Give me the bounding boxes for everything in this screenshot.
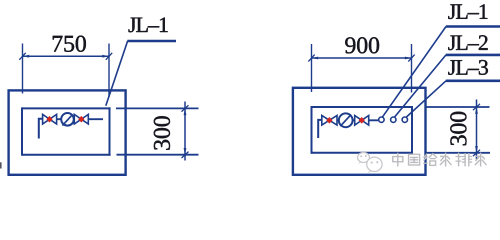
- dim 900 extension line right: [411, 44, 413, 93]
- edge smudge artifact: [0, 162, 2, 168]
- dim 300 right extension bottom: [426, 152, 491, 154]
- dim 900 dimension line: [312, 57, 412, 59]
- JL-3 underline (right figure): [446, 80, 500, 83]
- red diamond on right valve V1: [326, 117, 332, 124]
- dim 300 left extension bottom: [117, 154, 199, 156]
- right well inner wall bottom edge: [312, 152, 413, 154]
- JL-1 leader diagonal to riser 1: [382, 27, 446, 118]
- dim 300 right top arrow: [475, 107, 478, 114]
- left pipe: inlet riser drop: [39, 119, 43, 139]
- dim 750 extension line left: [22, 44, 24, 94]
- right well outer wall: [293, 88, 426, 175]
- watermark wechat logo: big bubble: [367, 157, 382, 171]
- dimension text 300 (left, rotated): [154, 116, 170, 150]
- dim 750 right arrow: [102, 55, 109, 58]
- left well outer wall: [9, 90, 126, 174]
- left well inner wall right edge: [109, 107, 111, 155]
- char 中: [393, 153, 403, 165]
- left pipe main line: [43, 118, 103, 120]
- JL-1 leader diagonal (left figure): [106, 41, 128, 106]
- dim 300 right bottom arrow: [475, 146, 478, 153]
- dim 300 right: dimension line: [476, 100, 478, 160]
- dimension text 750: [53, 36, 86, 52]
- right water meter (circle with slash): [339, 113, 353, 127]
- dim 300 left bottom arrow: [184, 148, 187, 155]
- left well inner wall bottom edge: [22, 154, 111, 156]
- dim 900 left arrow: [312, 57, 319, 60]
- riser JL-2 circle: [391, 117, 396, 122]
- dim 300 left extension top: [116, 107, 199, 109]
- dim 300 left: dimension line: [184, 102, 186, 161]
- label JL-2 (right figure): [448, 35, 487, 50]
- right well inner wall top edge: [312, 106, 413, 108]
- right well inner wall left edge: [311, 106, 313, 154]
- left valve V1 (bowtie): [43, 114, 57, 124]
- char 给: [424, 154, 437, 166]
- left well inner wall top edge: [22, 107, 111, 109]
- red diamond on left valve V1: [46, 116, 52, 123]
- dim 900 right arrow: [405, 57, 412, 60]
- JL-2 leader diagonal to riser 2: [394, 55, 446, 117]
- red diamond on left valve V2: [78, 116, 84, 123]
- dim 750 extension line right: [108, 44, 110, 98]
- right pipe main line: [322, 119, 379, 121]
- label JL-1 (left figure): [129, 18, 168, 33]
- char 排: [456, 153, 472, 166]
- dim 300 left top arrow: [184, 108, 187, 115]
- dim 750 left arrow: [23, 55, 30, 58]
- JL-2 underline (right figure): [446, 54, 500, 57]
- dim 900 extension line left: [311, 44, 313, 92]
- watermark text 中国给水排水 (hand-drawn strokes): [393, 153, 486, 166]
- label JL-1 (right figure): [448, 4, 487, 19]
- watermark wechat logo: eyes: [360, 155, 378, 164]
- JL-1 underline (right figure): [446, 25, 500, 28]
- left valve V2 (bowtie): [74, 114, 88, 124]
- right well inner wall right edge: [411, 106, 413, 154]
- dimension text 900: [345, 37, 379, 53]
- left well inner wall left edge: [21, 107, 23, 155]
- char 水 (second): [475, 153, 486, 166]
- JL-3 leader diagonal to riser 3: [406, 81, 446, 118]
- riser JL-1 circle: [379, 117, 384, 122]
- right pipe: inlet riser drop: [318, 120, 322, 138]
- char 水 (first): [440, 153, 451, 166]
- riser JL-3 circle: [402, 117, 407, 122]
- right valve V1 (bowtie): [322, 116, 337, 126]
- dimension text 300 (right, rotated): [450, 112, 466, 146]
- left water meter (circle with slash): [61, 113, 74, 126]
- red diamond on right valve V2: [359, 117, 365, 124]
- right valve V2 (bowtie): [355, 116, 369, 126]
- JL-1 leader underline (left figure): [127, 40, 176, 43]
- dim 750 dimension line: [23, 55, 110, 57]
- label JL-3 (right figure): [448, 60, 488, 75]
- dim 300 right extension top: [426, 106, 490, 108]
- watermark wechat logo: small bubble: [358, 153, 383, 174]
- char 国: [409, 154, 420, 165]
